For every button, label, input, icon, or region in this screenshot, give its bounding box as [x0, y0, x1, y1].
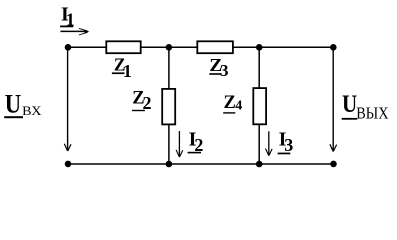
label Z3 [209, 55, 228, 80]
label Uvx [4, 89, 41, 118]
node bottom Z4 junction [256, 161, 263, 168]
arrow Uvx voltage direction [64, 51, 71, 152]
svg-text:3: 3 [284, 135, 293, 155]
svg-text:1: 1 [123, 61, 132, 81]
svg-text:U: U [342, 91, 357, 118]
arrow I1 current direction [61, 28, 90, 35]
label Z4 [223, 93, 242, 113]
node top-left input terminal [65, 44, 72, 51]
impedance Z4 (box) [253, 88, 266, 124]
arrow I3 current direction [266, 131, 273, 155]
wire Z2 branch upper [168, 47, 170, 89]
label Z2 [132, 88, 152, 112]
svg-text:Z: Z [224, 93, 236, 113]
svg-text:ВЫХ: ВЫХ [356, 104, 388, 123]
node bottom-left input terminal [65, 161, 72, 168]
impedance Z3 (box) [197, 41, 233, 53]
node bottom-right output terminal [330, 161, 337, 168]
label I3 [278, 129, 294, 156]
svg-text:3: 3 [220, 61, 229, 80]
arrow Uvyx voltage direction [330, 51, 337, 152]
label I2 [188, 129, 204, 155]
label Uvyx [342, 91, 389, 123]
wire top horizontal [68, 46, 333, 48]
wire Z4 branch lower [258, 125, 260, 165]
node top Z4 junction [256, 44, 263, 51]
svg-text:U: U [5, 89, 22, 118]
arrow I2 current direction [176, 131, 183, 157]
node top-right output terminal [330, 44, 337, 51]
node top Z2 junction [166, 44, 173, 51]
label I1 [60, 3, 75, 29]
svg-text:ВХ: ВХ [22, 104, 41, 118]
impedance Z1 (box) [106, 41, 140, 53]
svg-text:4: 4 [235, 98, 242, 113]
wire Z2 branch lower [168, 125, 170, 165]
node bottom Z2 junction [166, 161, 173, 168]
impedance Z2 (box) [162, 89, 175, 125]
wire Z4 branch upper [258, 47, 260, 89]
wire bottom horizontal [68, 163, 334, 165]
label Z1 [112, 55, 132, 81]
